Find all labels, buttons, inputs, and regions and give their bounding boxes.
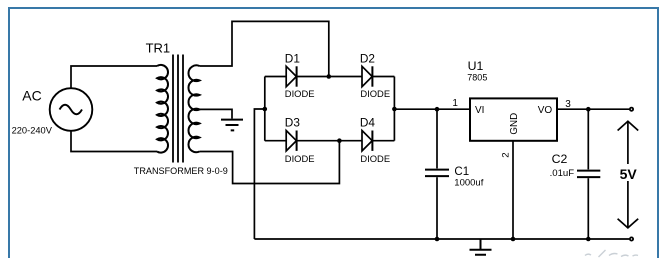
ground (output rail) — [470, 239, 492, 255]
node C1 bottom junction — [435, 237, 440, 242]
svg-text:C2: C2 — [552, 152, 568, 166]
svg-text:3: 3 — [565, 99, 571, 110]
svg-text:1: 1 — [452, 98, 458, 109]
svg-text:.01uF: .01uF — [550, 168, 575, 179]
svg-text:TRANSFORMER 9-0-9: TRANSFORMER 9-0-9 — [134, 166, 228, 176]
svg-text:VO: VO — [538, 105, 553, 116]
output terminal + — [630, 108, 633, 111]
node bridge left — [263, 107, 268, 112]
node C2 bottom junction — [586, 237, 591, 242]
svg-text:AC: AC — [22, 88, 41, 104]
svg-text:DIODE: DIODE — [285, 153, 315, 164]
wire bottom rail — [254, 238, 629, 240]
node D3-D4 junction — [337, 138, 342, 143]
svg-text:5V: 5V — [620, 166, 638, 182]
svg-text:D1: D1 — [285, 51, 300, 65]
wire bridge right vertical — [393, 77, 395, 141]
svg-text:1000uf: 1000uf — [454, 178, 483, 189]
svg-text:C1: C1 — [454, 166, 469, 178]
diode D4 — [362, 131, 372, 151]
wire bridge left to bottom rail — [254, 109, 264, 239]
watermark fragment — [585, 250, 638, 257]
svg-text:DIODE: DIODE — [285, 88, 315, 99]
wire secondary center tap — [200, 109, 233, 118]
wire bridge right to U1 VI (pin 1) — [394, 108, 470, 110]
transformer TR1 secondary winding — [188, 65, 199, 152]
svg-text:TR1: TR1 — [146, 40, 171, 55]
wire AC bottom to transformer primary bottom — [71, 131, 157, 152]
wire U1 pin 2 to ground rail — [512, 141, 514, 239]
node C1 top junction — [435, 107, 440, 112]
AC source V1 — [50, 88, 93, 131]
wire bridge left vertical — [264, 77, 266, 141]
output terminal - — [630, 237, 633, 240]
5V output arrow — [617, 121, 640, 228]
diode D2 — [362, 66, 372, 86]
svg-text:7805: 7805 — [467, 72, 487, 82]
diode D1 — [286, 66, 296, 86]
regulator U1 7805 — [470, 98, 557, 140]
wire bridge bottom row — [265, 140, 395, 142]
capacitor C2 — [577, 109, 600, 239]
wire U1 VO to output terminal (pin 3) — [557, 108, 629, 110]
svg-text:220-240V: 220-240V — [12, 125, 53, 135]
svg-text:VI: VI — [475, 105, 484, 116]
svg-text:2: 2 — [500, 152, 511, 157]
wire secondary bottom to D3-D4 junction — [200, 141, 340, 184]
capacitor C1 — [425, 109, 449, 239]
transformer TR1 core — [173, 55, 183, 163]
ground (center tap) — [221, 120, 243, 131]
node bridge right — [392, 107, 397, 112]
node D1-D2 junction — [327, 74, 332, 79]
transformer TR1 primary winding — [157, 65, 168, 153]
wire bridge top row — [265, 76, 395, 78]
node pin2 junction — [511, 237, 516, 242]
node C2 top junction — [586, 107, 591, 112]
diode D3 — [286, 131, 296, 151]
svg-text:D2: D2 — [360, 51, 375, 65]
svg-text:D3: D3 — [285, 116, 301, 130]
svg-text:DIODE: DIODE — [360, 153, 390, 164]
wire secondary top to D1-D2 junction — [200, 21, 329, 76]
svg-text:DIODE: DIODE — [360, 88, 390, 99]
wire AC top to transformer primary top — [71, 66, 157, 88]
svg-text:D4: D4 — [360, 116, 376, 130]
svg-text:GND: GND — [509, 113, 520, 135]
svg-text:U1: U1 — [468, 59, 484, 73]
